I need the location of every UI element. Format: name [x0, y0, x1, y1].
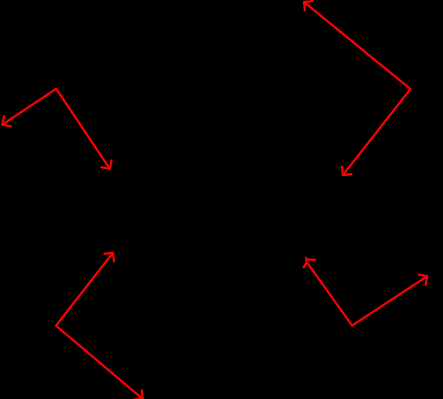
- arrowhead BL upper tip: [104, 253, 115, 262]
- arrowhead TL right tip: [101, 160, 112, 169]
- arrowhead TL left tip: [2, 115, 11, 126]
- arrowhead BR left tip (hand-drawn): [305, 257, 307, 263]
- wire shaft TR: [304, 2, 410, 175]
- arrowhead BR right tip: [418, 274, 427, 285]
- wire shaft TL: [2, 89, 110, 169]
- arrow bottom-right (double-headed V annotation arrow): [303, 257, 428, 326]
- arrowhead BL lower tip: [133, 389, 143, 399]
- arrow bottom-left (double-headed V annotation arrow): [56, 253, 143, 399]
- arrow top-right (double-headed V annotation arrow): [304, 1, 410, 175]
- arrowhead TR lower tip: [342, 166, 353, 175]
- arrowhead TR upper tip: [304, 1, 314, 11]
- arrow top-left (double-headed V annotation arrow): [2, 89, 111, 169]
- wire shaft BL: [56, 253, 143, 399]
- wire shaft BR: [308, 263, 428, 326]
